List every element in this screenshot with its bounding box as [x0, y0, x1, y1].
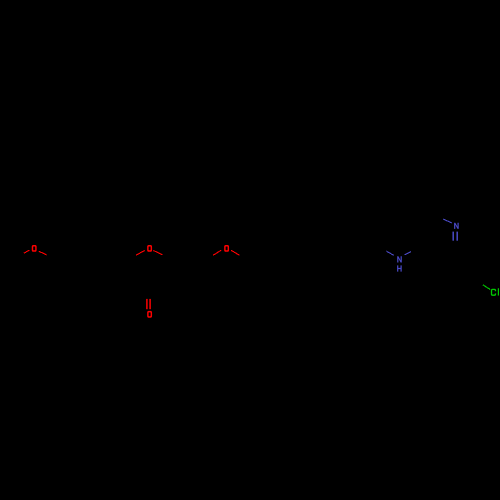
chloro Cl atom label lowercase l: [498, 288, 499, 295]
ether O2 right half-bond (red): [231, 250, 239, 255]
ether O2 left half-bond (red): [213, 250, 221, 255]
amine H atom label: [397, 265, 402, 271]
carbonyl carbon half of C9=O double bond (black): [147, 289, 150, 299]
ring A (left benzene of xanthone, black, invisible): [57, 248, 103, 301]
methoxy O-ring half-bond (red, O side, right): [39, 251, 47, 255]
ring B (right benzene, black, invisible): [172, 248, 218, 297]
xanthone ring O1 atom label: [147, 245, 152, 252]
amine N atom label: [397, 256, 402, 262]
wire: methyl C to O of methoxy (carbon half, black): [14, 253, 24, 259]
alkoxy chain carbons (black, invisible): [239, 243, 386, 262]
carbonyl C9=O double bond O-half line 2 (red): [149, 299, 151, 309]
central pyranone ring (black, invisible): [127, 260, 172, 289]
methoxy O-CH3 half-bond (red, O side, left): [24, 250, 29, 253]
xanthone ring O1 left half-bond (red): [136, 250, 145, 255]
ether O2 atom label: [224, 245, 229, 252]
chloro C7-Cl half-bond (green): [483, 285, 490, 290]
quinoline ring system (black, invisible): [411, 212, 443, 251]
methoxy O atom label: [32, 245, 37, 252]
carbonyl O atom label: [147, 311, 152, 318]
quinoline N1-C2 half-bond (blue, up-left): [443, 219, 452, 223]
chloro Cl atom label: [491, 289, 496, 296]
carbonyl C9=O double bond O-half line 1 (red): [146, 299, 148, 309]
quinoline N1 atom label: [454, 223, 459, 229]
wire: OMe ring attach: [47, 255, 58, 262]
quinoline N1=C8a double bond half line 2 (blue, outer): [456, 232, 458, 241]
quinoline N1=C8a double bond half line 1 (blue, inner): [452, 232, 454, 241]
xanthone ring O1 right half-bond (red): [153, 250, 162, 254]
amine NH right half-bond to quinoline C4 (blue): [405, 252, 411, 255]
amine NH left half-bond to chain (blue): [387, 251, 394, 255]
